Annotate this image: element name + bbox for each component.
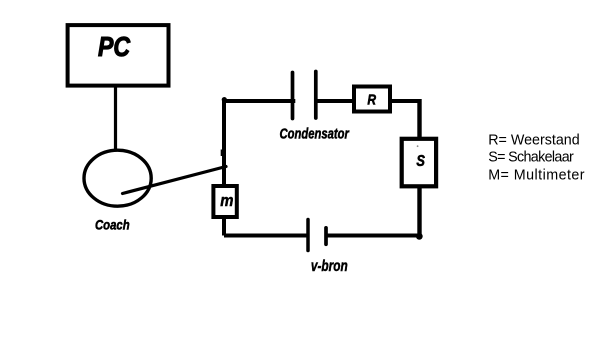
svg-text:Condensator: Condensator (280, 125, 350, 142)
svg-text:S: S (416, 153, 425, 171)
svg-text:R: R (367, 91, 376, 108)
svg-text:R= Weerstand: R= Weerstand (488, 132, 580, 148)
junction nub on left wire (221, 150, 224, 157)
capacitor right plate (314, 72, 318, 119)
wire top left (222, 99, 295, 103)
battery long plate (306, 220, 310, 251)
switch S box (402, 139, 436, 187)
corner blob top-left (222, 97, 227, 102)
battery short plate (324, 228, 328, 245)
sensor circle (Coach) (84, 150, 151, 206)
wire bottom right (326, 234, 420, 238)
multimeter m box (213, 186, 236, 217)
capacitor left plate (291, 73, 295, 119)
svg-text:PC: PC (98, 32, 131, 62)
wire bottom left (224, 234, 308, 238)
svg-text:S= Schakelaar: S= Schakelaar (488, 150, 574, 166)
svg-text:Coach: Coach (95, 216, 130, 233)
wire diagonal Coach to circuit (123, 167, 227, 194)
wire right vertical (417, 99, 421, 236)
artifact dot in S box (417, 145, 419, 147)
PC box U-PC (68, 25, 169, 86)
svg-text:m: m (220, 192, 233, 210)
resistor R box (354, 87, 390, 112)
wire PC to Coach (114, 87, 117, 150)
wire top right segment (316, 99, 420, 103)
svg-text:M= Multimeter: M= Multimeter (488, 168, 585, 184)
svg-text:v-bron: v-bron (311, 256, 348, 274)
junction dot bottom right (416, 233, 423, 240)
wire left vertical (222, 99, 226, 236)
